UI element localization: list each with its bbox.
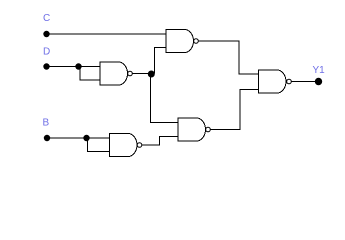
wire U5 out to Y1 terminal (291, 81, 318, 83)
wire U3 out to U4 bottom input (142, 137, 178, 146)
node B junction (83, 135, 89, 141)
nand U1 bubble (194, 39, 199, 44)
wire U1 out to U5 top input (198, 41, 258, 74)
nand U3 bubble (137, 143, 142, 148)
output label Y1 (313, 65, 326, 76)
input terminal C (43, 31, 49, 37)
wire B to U3 top input (47, 137, 110, 139)
nand U3 (B inverter) body (110, 134, 138, 157)
nand U5 bubble (287, 79, 292, 84)
wire B loop to U3 bottom input (88, 138, 110, 152)
wire mid node down to U4 top input (151, 74, 179, 123)
input label D (43, 47, 50, 58)
svg-text:C: C (43, 13, 50, 24)
node D junction (75, 63, 81, 69)
nand U2 (D inverter) body (100, 62, 128, 85)
output terminal Y1 (315, 78, 322, 85)
wire U4 out to U5 bottom input (210, 89, 258, 129)
input label C (43, 13, 50, 24)
node mid junction (148, 71, 155, 78)
wire U2 out to mid node (132, 73, 151, 75)
nand U4 bubble (206, 127, 211, 132)
svg-text:Y1: Y1 (313, 65, 326, 76)
nand U1 (top) body (166, 30, 194, 53)
nand U5 (output) body (259, 70, 287, 93)
svg-text:D: D (43, 47, 50, 58)
wire D loop to U2 bottom input (80, 67, 100, 81)
wire mid node up to U1 bottom input (155, 48, 167, 74)
input terminal D (43, 63, 49, 69)
wire D to U2 top input (47, 66, 101, 68)
nand U2 bubble (128, 71, 133, 76)
input label B (43, 118, 50, 129)
input terminal B (44, 135, 50, 141)
svg-text:B: B (43, 118, 50, 129)
wire C to U1 top input (47, 33, 167, 35)
nand U4 (middle) body (178, 118, 206, 141)
